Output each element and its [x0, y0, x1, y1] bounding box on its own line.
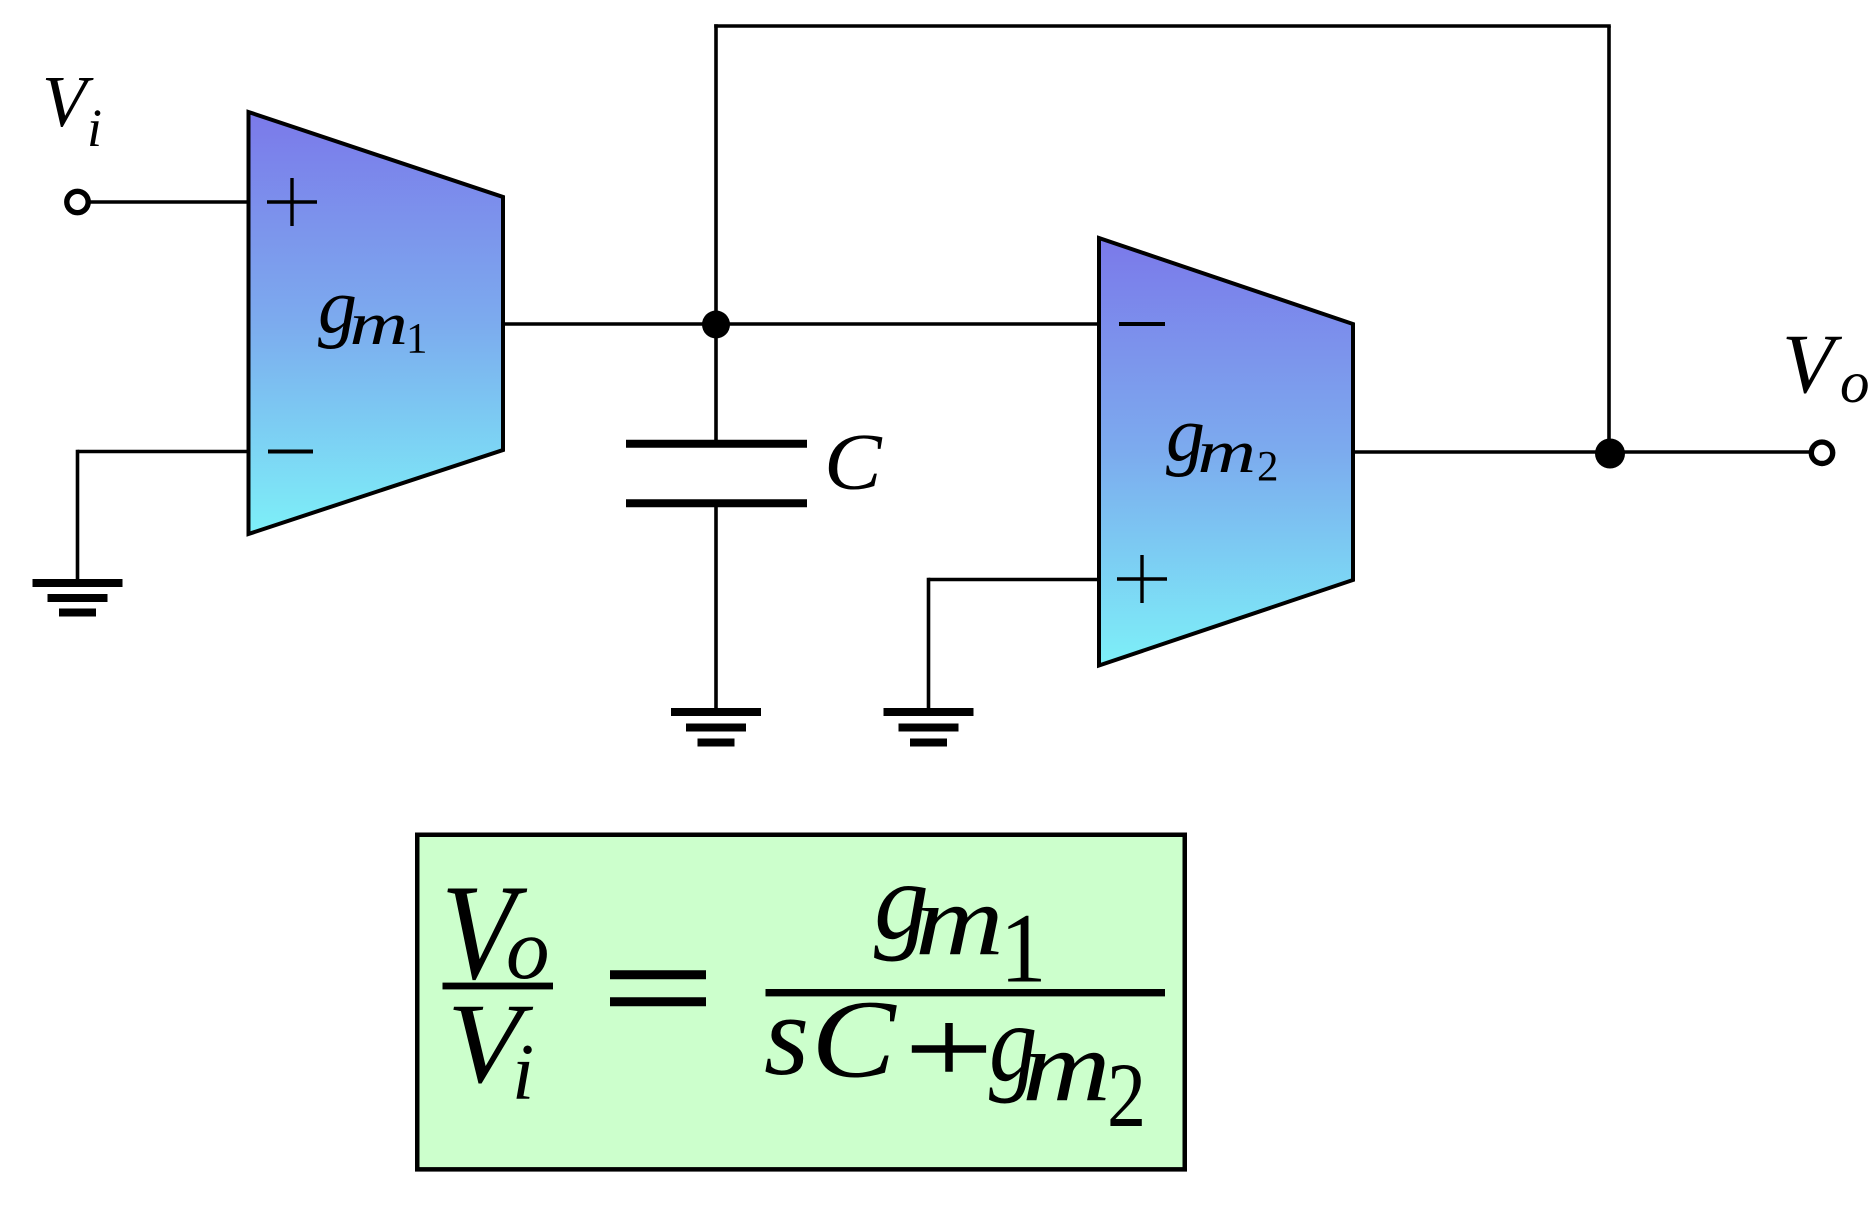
- wire gm2 + input to ground (vertical): [927, 578, 931, 709]
- wire gm1 - input to ground (vertical): [76, 450, 80, 580]
- wire gm2 output to output node: [1353, 450, 1609, 454]
- wire ground to gm1 - input (horizontal): [78, 450, 249, 454]
- wire node A to gm2 - input: [716, 322, 1099, 326]
- formula: equals sign: [610, 975, 706, 1002]
- wire capacitor C to ground: [714, 505, 718, 709]
- capacitor C bottom plate: [626, 499, 807, 507]
- wire node A down to capacitor C: [714, 324, 718, 440]
- wire Vi terminal to gm1 + input: [90, 200, 249, 204]
- ground (gm2 + input): [884, 712, 974, 743]
- minus sign gm2 - input: [1119, 322, 1165, 326]
- input terminal Vi (open circle): [67, 191, 88, 212]
- svg-text:2: 2: [1257, 443, 1279, 490]
- svg-text:m: m: [350, 292, 409, 358]
- svg-text:C: C: [824, 419, 883, 507]
- formula: fraction bar Vo/Vi: [443, 983, 554, 990]
- label Vo: [1782, 317, 1870, 415]
- plus sign gm2 + input: [1117, 555, 1167, 603]
- svg-text:i: i: [87, 98, 102, 158]
- wire feedback down to output node: [1607, 26, 1611, 452]
- node Vo junction dot: [1595, 439, 1625, 469]
- svg-text:C: C: [811, 978, 897, 1101]
- label gm1: [318, 262, 428, 362]
- node A junction dot: [702, 311, 730, 339]
- wire ground to gm2 + input (horizontal): [929, 578, 1100, 582]
- svg-text:i: i: [512, 1029, 534, 1117]
- output terminal Vo (open circle): [1811, 442, 1832, 463]
- op-amp U1 gm1 (OTA trapezoid): [249, 112, 504, 534]
- svg-text:m: m: [1198, 420, 1257, 486]
- ground (capacitor C): [671, 712, 761, 743]
- label gm2: [1166, 390, 1279, 490]
- svg-text:2: 2: [1107, 1045, 1146, 1146]
- minus sign gm1 - input: [268, 450, 313, 454]
- formula box (green): [417, 835, 1185, 1170]
- svg-text:m: m: [1022, 1011, 1111, 1122]
- capacitor C top plate: [626, 440, 807, 448]
- label Vi: [42, 61, 102, 158]
- svg-text:m: m: [915, 865, 1004, 976]
- op-amp U2 gm2 (OTA trapezoid): [1099, 238, 1353, 666]
- ground (gm1 - input): [33, 583, 123, 613]
- svg-text:o: o: [1840, 349, 1870, 415]
- wire feedback top horizontal: [714, 24, 1611, 28]
- wire output node to Vo terminal: [1609, 450, 1810, 454]
- svg-text:1: 1: [406, 315, 428, 362]
- wire node A up to feedback: [714, 24, 718, 324]
- svg-text:V: V: [1782, 317, 1843, 411]
- wire gm1 output to node A: [503, 322, 716, 326]
- svg-text:s: s: [764, 972, 809, 1100]
- formula: denominator plus sign: [912, 1023, 986, 1072]
- plus sign gm1 + input: [267, 178, 317, 226]
- formula: main fraction bar: [766, 989, 1166, 996]
